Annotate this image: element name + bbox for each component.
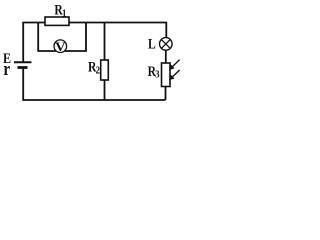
label R1 xyxy=(54,1,66,19)
svg-text:r: r xyxy=(3,59,10,80)
label R2 xyxy=(88,58,100,76)
svg-text:V: V xyxy=(55,39,66,54)
wire lamp to R3 xyxy=(165,50,167,64)
resistor R1 xyxy=(45,17,69,25)
light arrows into R3 xyxy=(169,60,180,81)
resistor R2 xyxy=(101,60,109,80)
label R3 xyxy=(148,63,160,81)
label r xyxy=(3,59,10,80)
voltmeter V xyxy=(54,39,67,54)
svg-text:R1: R1 xyxy=(54,1,66,19)
svg-text:R2: R2 xyxy=(88,58,100,76)
wire top xyxy=(23,23,166,62)
svg-text:R3: R3 xyxy=(148,63,160,81)
resistor R3 photoresistor xyxy=(162,63,171,87)
wire R2 branch xyxy=(104,23,106,101)
label E xyxy=(3,50,11,67)
battery E r xyxy=(14,62,32,67)
svg-text:L: L xyxy=(148,35,156,52)
wire R3 branch lower xyxy=(165,87,167,101)
lamp L xyxy=(160,38,173,51)
label L xyxy=(148,35,156,52)
wire voltmeter loop xyxy=(38,23,86,51)
wire left lower xyxy=(23,69,165,101)
